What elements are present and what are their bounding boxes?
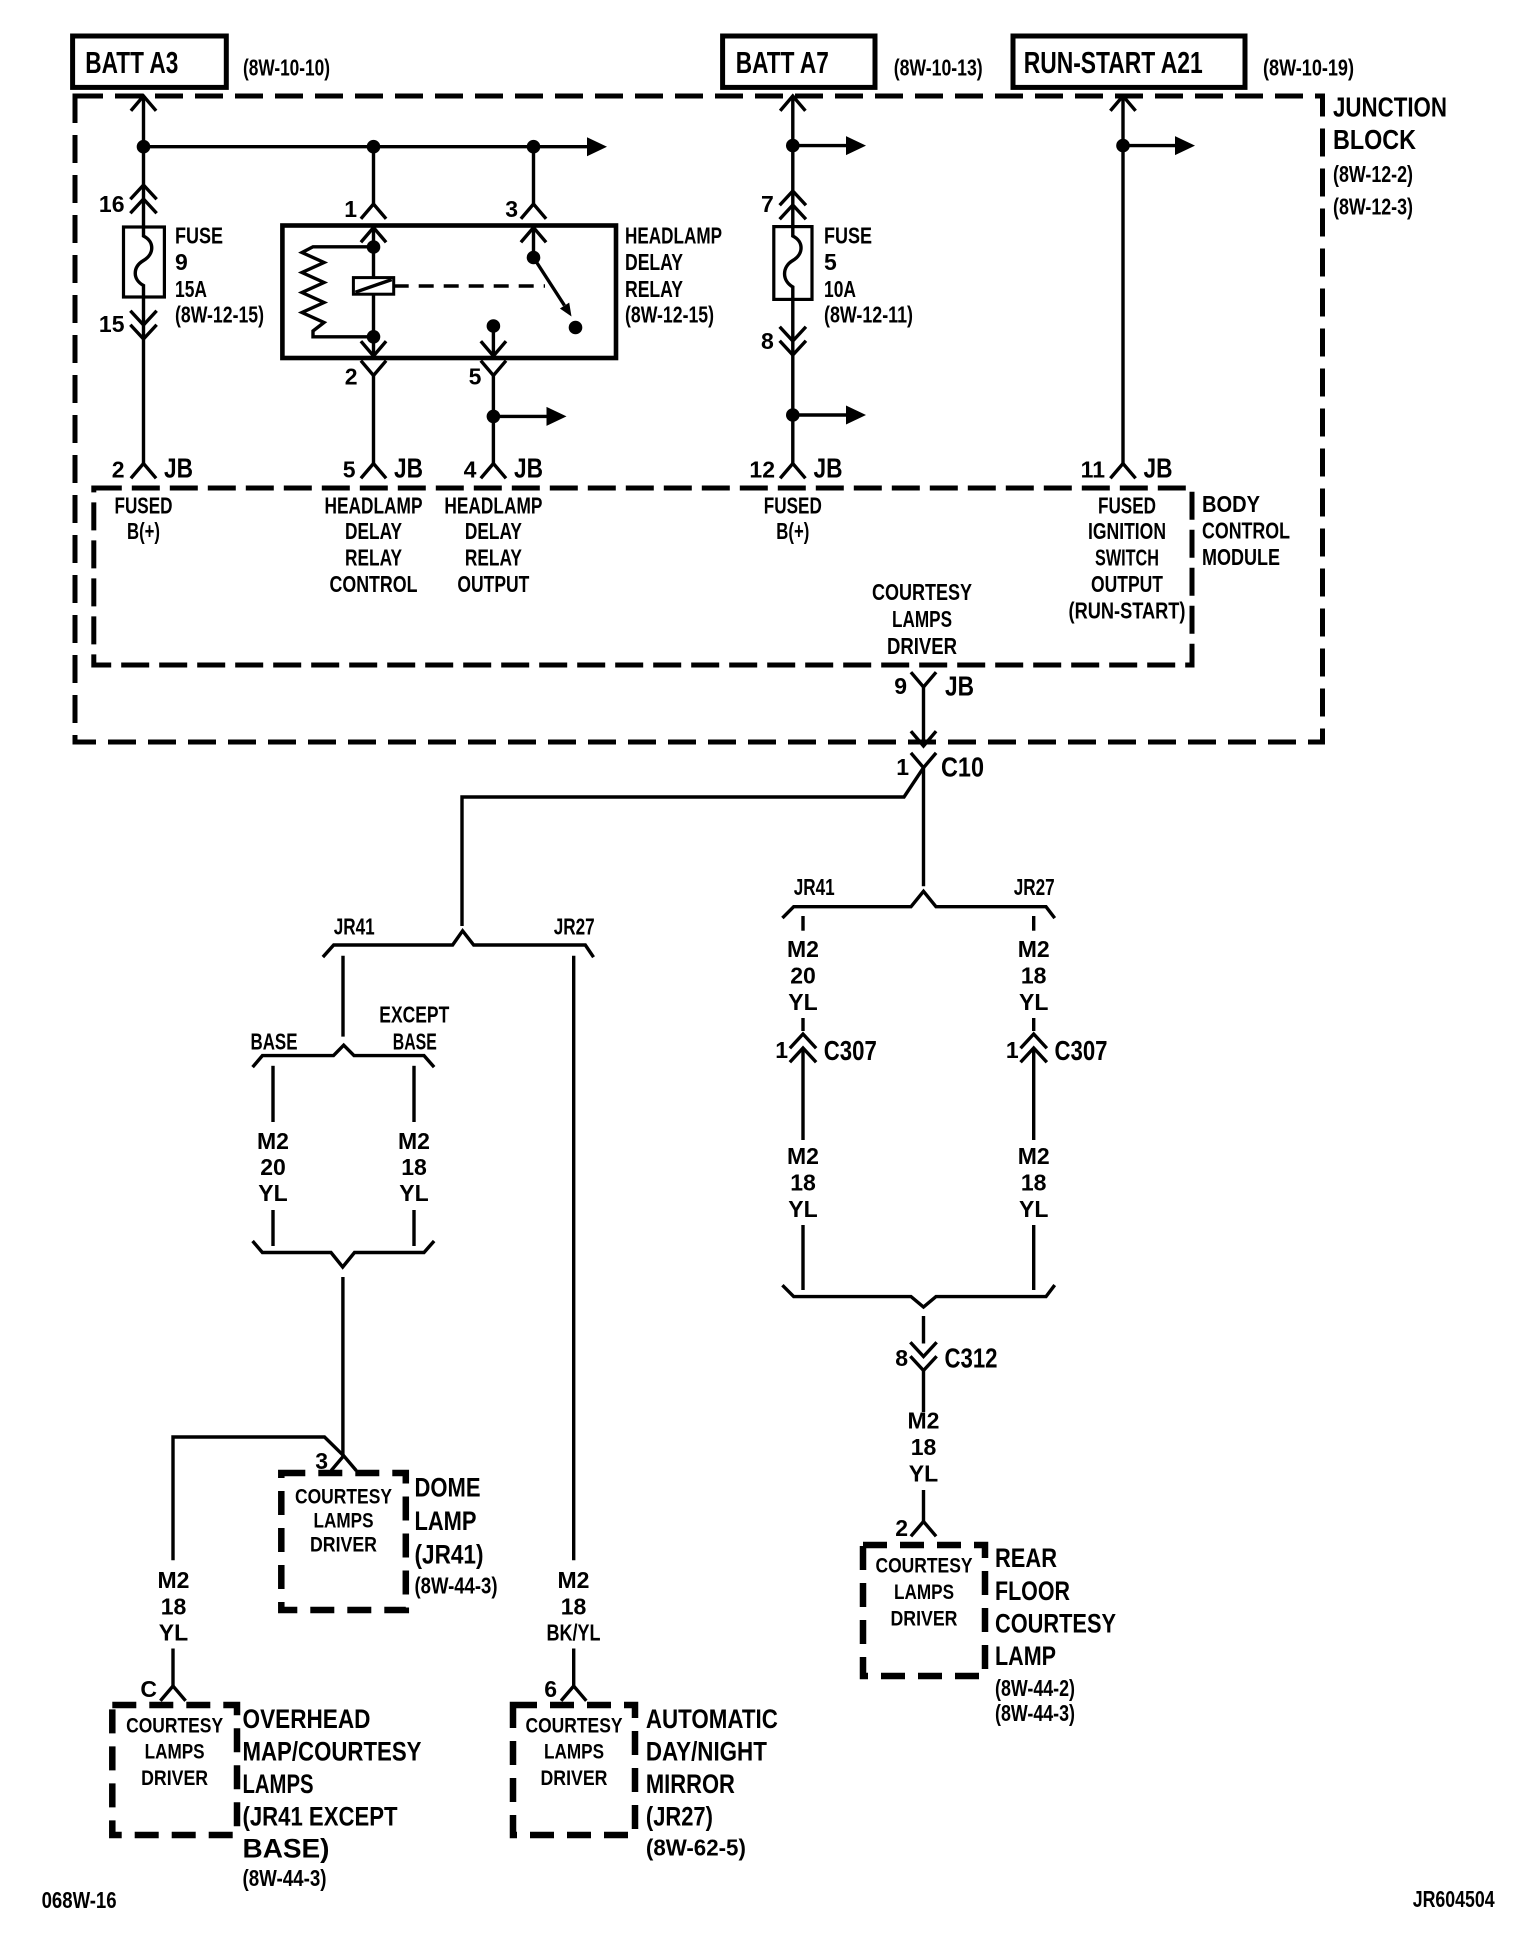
- svg-text:BATT A3: BATT A3: [85, 45, 178, 80]
- svg-text:4: 4: [464, 457, 477, 483]
- wire to merge brace (right JR27): [1032, 1225, 1035, 1290]
- svg-text:LAMP: LAMP: [995, 1641, 1056, 1671]
- merge brace right: [784, 1286, 1054, 1307]
- svg-text:M2: M2: [787, 1143, 819, 1169]
- fuse 5 (10A): [774, 227, 812, 300]
- svg-text:12: 12: [749, 457, 775, 483]
- svg-text:REAR: REAR: [995, 1543, 1057, 1573]
- svg-text:2: 2: [112, 457, 125, 483]
- splice brace left (JR41/JR27): [324, 931, 593, 956]
- wire base stub: [271, 1066, 274, 1122]
- svg-text:1: 1: [775, 1037, 788, 1063]
- wire bus to relay pin 1: [372, 147, 375, 204]
- svg-text:YL: YL: [399, 1180, 428, 1206]
- svg-text:9: 9: [175, 249, 188, 275]
- svg-text:18: 18: [911, 1434, 937, 1460]
- JB pin 2 connector: [132, 464, 155, 478]
- svg-text:(JR41 EXCEPT: (JR41 EXCEPT: [243, 1802, 398, 1832]
- svg-text:M2: M2: [558, 1567, 590, 1593]
- wire mirror to pin 6: [572, 1649, 575, 1687]
- svg-text:COURTESY: COURTESY: [126, 1715, 223, 1738]
- junction dot relay pin 1 bus: [367, 140, 381, 154]
- svg-text:JR27: JR27: [554, 914, 595, 940]
- svg-text:JB: JB: [394, 453, 423, 484]
- svg-text:(JR41): (JR41): [415, 1540, 484, 1570]
- svg-text:HEADLAMP: HEADLAMP: [325, 493, 423, 519]
- relay pin 5 contact dot: [487, 319, 501, 333]
- svg-text:18: 18: [790, 1170, 816, 1196]
- svg-text:DRIVER: DRIVER: [310, 1534, 377, 1557]
- svg-text:OVERHEAD: OVERHEAD: [243, 1704, 371, 1734]
- junction dot bus A3: [137, 140, 151, 154]
- svg-text:M2: M2: [398, 1128, 430, 1154]
- svg-text:11: 11: [1081, 457, 1106, 483]
- svg-text:18: 18: [561, 1594, 587, 1620]
- feed box BATT A3: [73, 36, 227, 87]
- junction dot fused B+ branch: [786, 408, 800, 422]
- svg-text:(8W-12-2): (8W-12-2): [1333, 161, 1413, 187]
- junction dot A21 branch: [1116, 139, 1130, 153]
- svg-text:DOME: DOME: [415, 1473, 481, 1503]
- connector C10 pin 1: [912, 754, 935, 768]
- svg-text:BATT A7: BATT A7: [736, 45, 829, 80]
- svg-text:BASE: BASE: [393, 1029, 437, 1055]
- svg-text:(8W-12-15): (8W-12-15): [625, 302, 714, 328]
- rear floor lamp pin 2 connector: [912, 1522, 935, 1536]
- svg-text:BLOCK: BLOCK: [1333, 124, 1416, 155]
- junction dot coil top: [367, 240, 381, 254]
- wire fused B+ branch arrow: [793, 413, 846, 416]
- svg-text:IGNITION: IGNITION: [1088, 518, 1166, 544]
- wire BATT A3 feed (node A3): [132, 96, 155, 110]
- svg-text:FUSED: FUSED: [764, 493, 822, 519]
- svg-text:20: 20: [790, 962, 816, 988]
- svg-text:SWITCH: SWITCH: [1095, 545, 1159, 571]
- svg-text:JB: JB: [514, 453, 543, 484]
- svg-text:JR604504: JR604504: [1413, 1886, 1495, 1912]
- splice brace base/except-base: [254, 1045, 433, 1066]
- body control module dashed box: [94, 488, 1192, 665]
- svg-text:15: 15: [99, 311, 125, 337]
- relay pin 3 connector: [522, 204, 545, 218]
- svg-text:JB: JB: [164, 453, 193, 484]
- svg-text:YL: YL: [159, 1620, 188, 1646]
- svg-text:LAMPS: LAMPS: [243, 1769, 314, 1799]
- svg-text:LAMPS: LAMPS: [894, 1581, 954, 1604]
- relay pin 1 connector: [362, 204, 385, 218]
- svg-text:M2: M2: [787, 936, 819, 962]
- rear floor courtesy lamp box: [863, 1545, 985, 1676]
- svg-text:(8W-10-19): (8W-10-19): [1263, 54, 1354, 80]
- svg-text:RELAY: RELAY: [465, 545, 522, 571]
- svg-text:DELAY: DELAY: [625, 249, 683, 275]
- svg-text:DRIVER: DRIVER: [891, 1608, 958, 1631]
- svg-text:BK/YL: BK/YL: [547, 1620, 601, 1646]
- svg-text:DELAY: DELAY: [345, 518, 402, 544]
- svg-text:LAMPS: LAMPS: [145, 1741, 205, 1764]
- svg-text:C: C: [140, 1676, 157, 1702]
- svg-text:JR41: JR41: [334, 914, 375, 940]
- svg-text:B(+): B(+): [127, 518, 160, 544]
- svg-text:FLOOR: FLOOR: [995, 1576, 1070, 1606]
- svg-text:(8W-12-3): (8W-12-3): [1333, 194, 1413, 220]
- svg-text:COURTESY: COURTESY: [995, 1609, 1116, 1639]
- svg-text:YL: YL: [909, 1461, 938, 1487]
- svg-text:DRIVER: DRIVER: [141, 1767, 208, 1790]
- connector pin 7 chevrons: [781, 191, 805, 218]
- svg-text:JB: JB: [814, 453, 843, 484]
- wire to C307 (right JR41): [801, 1018, 804, 1031]
- svg-text:20: 20: [260, 1154, 286, 1180]
- svg-text:9: 9: [894, 673, 907, 699]
- svg-text:COURTESY: COURTESY: [526, 1715, 623, 1738]
- svg-text:C10: C10: [941, 752, 984, 783]
- svg-text:AUTOMATIC: AUTOMATIC: [646, 1704, 778, 1734]
- resistor (relay coil suppression): [302, 247, 374, 337]
- svg-text:(JR27): (JR27): [646, 1802, 713, 1832]
- svg-text:M2: M2: [1018, 936, 1050, 962]
- svg-text:5: 5: [824, 249, 837, 275]
- svg-text:(8W-10-13): (8W-10-13): [894, 54, 983, 80]
- svg-text:COURTESY: COURTESY: [872, 579, 972, 605]
- wire right JR27 stub: [1032, 916, 1035, 931]
- svg-text:2: 2: [895, 1515, 908, 1541]
- wire except-base to merge: [412, 1210, 415, 1246]
- svg-text:(RUN-START): (RUN-START): [1069, 598, 1186, 624]
- svg-text:M2: M2: [1018, 1143, 1050, 1169]
- svg-text:LAMPS: LAMPS: [314, 1510, 374, 1533]
- JB pin 9 connector: [912, 674, 935, 688]
- svg-text:COURTESY: COURTESY: [876, 1555, 973, 1578]
- wire BATT A7 feed (node A7): [781, 96, 804, 110]
- svg-text:CONTROL: CONTROL: [1202, 518, 1290, 544]
- JB pin 5 connector: [362, 464, 385, 478]
- svg-text:(8W-10-10): (8W-10-10): [243, 54, 330, 80]
- svg-text:MAP/COURTESY: MAP/COURTESY: [243, 1736, 422, 1766]
- wire C307 down (right JR41): [801, 1048, 804, 1140]
- junction block dashed border: [75, 96, 1323, 742]
- svg-text:C312: C312: [945, 1343, 998, 1374]
- wire JB pin 9 to border: [922, 687, 925, 742]
- relay switch thrown contact dot: [569, 321, 583, 335]
- wire bus to relay pin 3: [532, 147, 535, 204]
- relay pin 2 connector below box: [362, 362, 385, 376]
- svg-text:DRIVER: DRIVER: [887, 633, 957, 659]
- svg-text:C307: C307: [1055, 1035, 1108, 1066]
- merge brace left: [254, 1242, 433, 1267]
- wire left JR41 to base split: [341, 956, 344, 1037]
- svg-text:8: 8: [895, 1345, 908, 1371]
- svg-text:RUN-START A21: RUN-START A21: [1024, 45, 1203, 80]
- wire merge to dome lamp pin 3: [341, 1277, 344, 1456]
- splice brace right (JR41/JR27): [784, 891, 1054, 917]
- svg-text:OUTPUT: OUTPUT: [457, 571, 529, 597]
- svg-text:HEADLAMP: HEADLAMP: [625, 223, 722, 249]
- wire A21 branch arrow: [1123, 144, 1175, 147]
- wire RUN-START feed (node A21): [1112, 96, 1135, 110]
- svg-text:10A: 10A: [824, 276, 856, 302]
- svg-text:MODULE: MODULE: [1202, 544, 1280, 570]
- svg-text:M2: M2: [257, 1128, 289, 1154]
- fuse 9 (15A): [124, 227, 165, 297]
- wire left JR27 to mirror: [572, 956, 575, 1561]
- svg-text:YL: YL: [1019, 1196, 1048, 1222]
- svg-text:CONTROL: CONTROL: [330, 571, 418, 597]
- wire relay pin 5 to JB pin 4: [492, 376, 495, 464]
- relay actuation dashed link: [394, 284, 545, 287]
- svg-text:M2: M2: [158, 1567, 190, 1593]
- svg-text:18: 18: [1021, 1170, 1047, 1196]
- svg-text:2: 2: [345, 364, 358, 390]
- relay pin 1 internal lead: [372, 226, 375, 248]
- svg-text:BODY: BODY: [1202, 491, 1260, 517]
- relay K1 headlamp delay relay box: [282, 226, 616, 359]
- svg-text:5: 5: [469, 364, 482, 390]
- junction dot headlamp delay output branch: [487, 410, 501, 424]
- dome lamp box: [281, 1473, 406, 1610]
- wire C307 down (right JR27): [1032, 1048, 1035, 1140]
- connector C307 pin 1 (JR27): [1022, 1034, 1046, 1061]
- wire fuse 5 to JB pin 12: [791, 299, 794, 463]
- svg-text:RELAY: RELAY: [345, 545, 402, 571]
- connector C312 pin 8: [912, 1344, 936, 1371]
- wire to merge brace (right JR41): [801, 1225, 804, 1290]
- svg-text:18: 18: [1021, 962, 1047, 988]
- feed box BATT A7: [723, 36, 875, 87]
- wire except-base stub: [412, 1066, 415, 1122]
- svg-text:JUNCTION: JUNCTION: [1333, 92, 1447, 123]
- svg-text:7: 7: [761, 191, 774, 217]
- junction dot A7 branch: [786, 139, 800, 153]
- wire C10 to right splice: [922, 768, 925, 887]
- svg-text:(8W-44-3): (8W-44-3): [415, 1573, 498, 1599]
- svg-text:YL: YL: [1019, 989, 1048, 1015]
- svg-text:C307: C307: [824, 1035, 877, 1066]
- svg-text:8: 8: [761, 328, 774, 354]
- svg-text:YL: YL: [788, 1196, 817, 1222]
- svg-text:6: 6: [544, 1676, 557, 1702]
- svg-text:(8W-44-2): (8W-44-2): [995, 1675, 1075, 1701]
- JB pin 12 connector: [781, 464, 804, 478]
- svg-text:(8W-12-15): (8W-12-15): [175, 302, 264, 328]
- svg-text:(8W-62-5): (8W-62-5): [646, 1835, 746, 1861]
- svg-text:YL: YL: [258, 1180, 287, 1206]
- relay coil: [372, 247, 375, 278]
- svg-text:BASE): BASE): [243, 1834, 330, 1864]
- overhead map/courtesy lamps box: [112, 1705, 237, 1835]
- relay pin 5 connector below box: [482, 362, 505, 376]
- svg-text:B(+): B(+): [776, 518, 809, 544]
- svg-text:DELAY: DELAY: [465, 518, 522, 544]
- svg-text:18: 18: [401, 1154, 427, 1180]
- svg-text:LAMPS: LAMPS: [892, 606, 952, 632]
- relay pin 2 internal lead: [372, 337, 375, 358]
- svg-text:RELAY: RELAY: [625, 276, 683, 302]
- svg-text:1: 1: [1006, 1037, 1019, 1063]
- svg-text:YL: YL: [788, 989, 817, 1015]
- junction dot coil bottom: [367, 330, 381, 344]
- svg-text:MIRROR: MIRROR: [646, 1769, 735, 1799]
- overhead lamps pin C connector: [162, 1686, 185, 1700]
- wire to C307 (right JR27): [1032, 1018, 1035, 1031]
- svg-text:068W-16: 068W-16: [42, 1887, 117, 1913]
- relay pin 3 internal lead: [532, 226, 535, 258]
- svg-text:JB: JB: [945, 671, 974, 702]
- wire fuse 9 to JB pin 2: [142, 297, 145, 464]
- svg-text:5: 5: [343, 457, 356, 483]
- svg-text:15A: 15A: [175, 276, 207, 302]
- wire relay pin 2 to JB pin 5: [372, 376, 375, 464]
- svg-text:JB: JB: [1144, 453, 1173, 484]
- svg-text:16: 16: [99, 191, 125, 217]
- svg-text:18: 18: [161, 1594, 187, 1620]
- svg-text:JR27: JR27: [1014, 874, 1055, 900]
- connector pin 16 chevrons: [132, 185, 156, 212]
- wire branch arrow to other circuits: [493, 415, 546, 418]
- svg-text:COURTESY: COURTESY: [295, 1486, 392, 1509]
- wire base to merge: [271, 1210, 274, 1246]
- wire merge to C312: [922, 1316, 925, 1344]
- svg-text:(8W-44-3): (8W-44-3): [995, 1700, 1075, 1726]
- automatic day/night mirror box: [513, 1705, 635, 1835]
- connector C307 pin 1 (JR41): [791, 1034, 815, 1061]
- mirror pin 6 connector: [562, 1686, 585, 1700]
- wire A7 branch arrow: [793, 144, 846, 147]
- svg-text:FUSE: FUSE: [824, 223, 872, 249]
- connector pin 15 chevrons: [132, 312, 156, 339]
- svg-text:LAMP: LAMP: [415, 1506, 477, 1536]
- wire right JR41 stub: [801, 916, 804, 931]
- wire overhead to pin C: [171, 1649, 174, 1687]
- svg-text:(8W-44-3): (8W-44-3): [243, 1865, 327, 1891]
- wire to rear lamp pin 2: [922, 1490, 925, 1522]
- svg-text:LAMPS: LAMPS: [544, 1741, 604, 1764]
- relay switch common contact dot: [527, 251, 541, 265]
- JB pin 4 connector: [482, 464, 505, 478]
- connector pin 8 chevrons: [781, 328, 805, 355]
- wire C10 branch to left splice: [462, 768, 924, 926]
- junction dot relay pin 3 bus: [527, 140, 541, 154]
- relay pin 5 internal lead: [492, 326, 495, 358]
- svg-text:FUSED: FUSED: [115, 493, 173, 519]
- svg-text:DAY/NIGHT: DAY/NIGHT: [646, 1736, 767, 1766]
- wire branch to overhead lamps: [173, 1437, 344, 1560]
- dome lamp pin 3 connector: [332, 1456, 355, 1470]
- relay switch blade: [534, 258, 565, 306]
- svg-text:OUTPUT: OUTPUT: [1091, 571, 1163, 597]
- wire C312 down: [922, 1371, 925, 1413]
- svg-text:EXCEPT: EXCEPT: [379, 1002, 449, 1028]
- svg-text:(8W-12-11): (8W-12-11): [824, 302, 913, 328]
- svg-text:BASE: BASE: [251, 1029, 298, 1055]
- svg-text:1: 1: [896, 754, 909, 780]
- svg-text:FUSED: FUSED: [1098, 493, 1156, 519]
- wire bus from BATT A3 to relay pins: [144, 145, 588, 148]
- svg-text:1: 1: [344, 196, 357, 222]
- svg-text:JR41: JR41: [794, 874, 835, 900]
- svg-text:HEADLAMP: HEADLAMP: [444, 493, 542, 519]
- svg-text:M2: M2: [908, 1408, 940, 1434]
- svg-text:3: 3: [505, 196, 518, 222]
- svg-text:FUSE: FUSE: [175, 223, 223, 249]
- svg-text:DRIVER: DRIVER: [541, 1767, 608, 1790]
- feed box RUN-START A21: [1013, 36, 1245, 87]
- JB pin 11 connector: [1112, 464, 1135, 478]
